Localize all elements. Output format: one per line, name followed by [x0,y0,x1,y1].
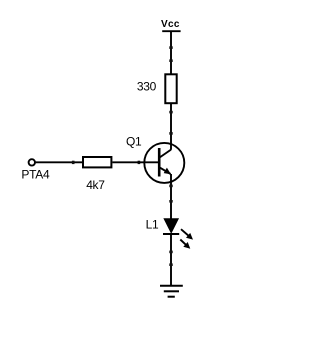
junction tick [138,161,141,164]
junction tick [72,161,75,164]
svg-text:4k7: 4k7 [86,178,105,192]
resistor 330 [137,74,177,103]
LED L1 [146,218,193,249]
svg-text:L1: L1 [146,218,159,232]
ground [160,286,183,297]
resistor 4k7 [83,157,111,192]
power Vcc [161,19,181,31]
junction tick [169,59,172,62]
wire PTA4 to resistor 4k7 [36,161,82,163]
junction tick [169,111,172,114]
transistor Q1 [126,135,184,183]
junction tick [169,132,172,135]
junction tick [169,263,172,266]
svg-text:Vcc: Vcc [161,19,180,30]
junction tick [169,185,172,188]
svg-text:PTA4: PTA4 [21,168,50,182]
wire resistor 330 to collector [170,103,172,150]
junction tick [169,200,172,203]
terminal PTA4 [21,159,50,181]
svg-text:Q1: Q1 [126,135,142,149]
svg-text:330: 330 [137,80,157,94]
junction tick [169,46,172,49]
wire emitter to LED [170,174,172,219]
wire Vcc to resistor 330 [170,31,172,74]
wire LED to ground [170,234,172,286]
junction tick [169,251,172,254]
wire resistor 4k7 to base [112,161,159,163]
